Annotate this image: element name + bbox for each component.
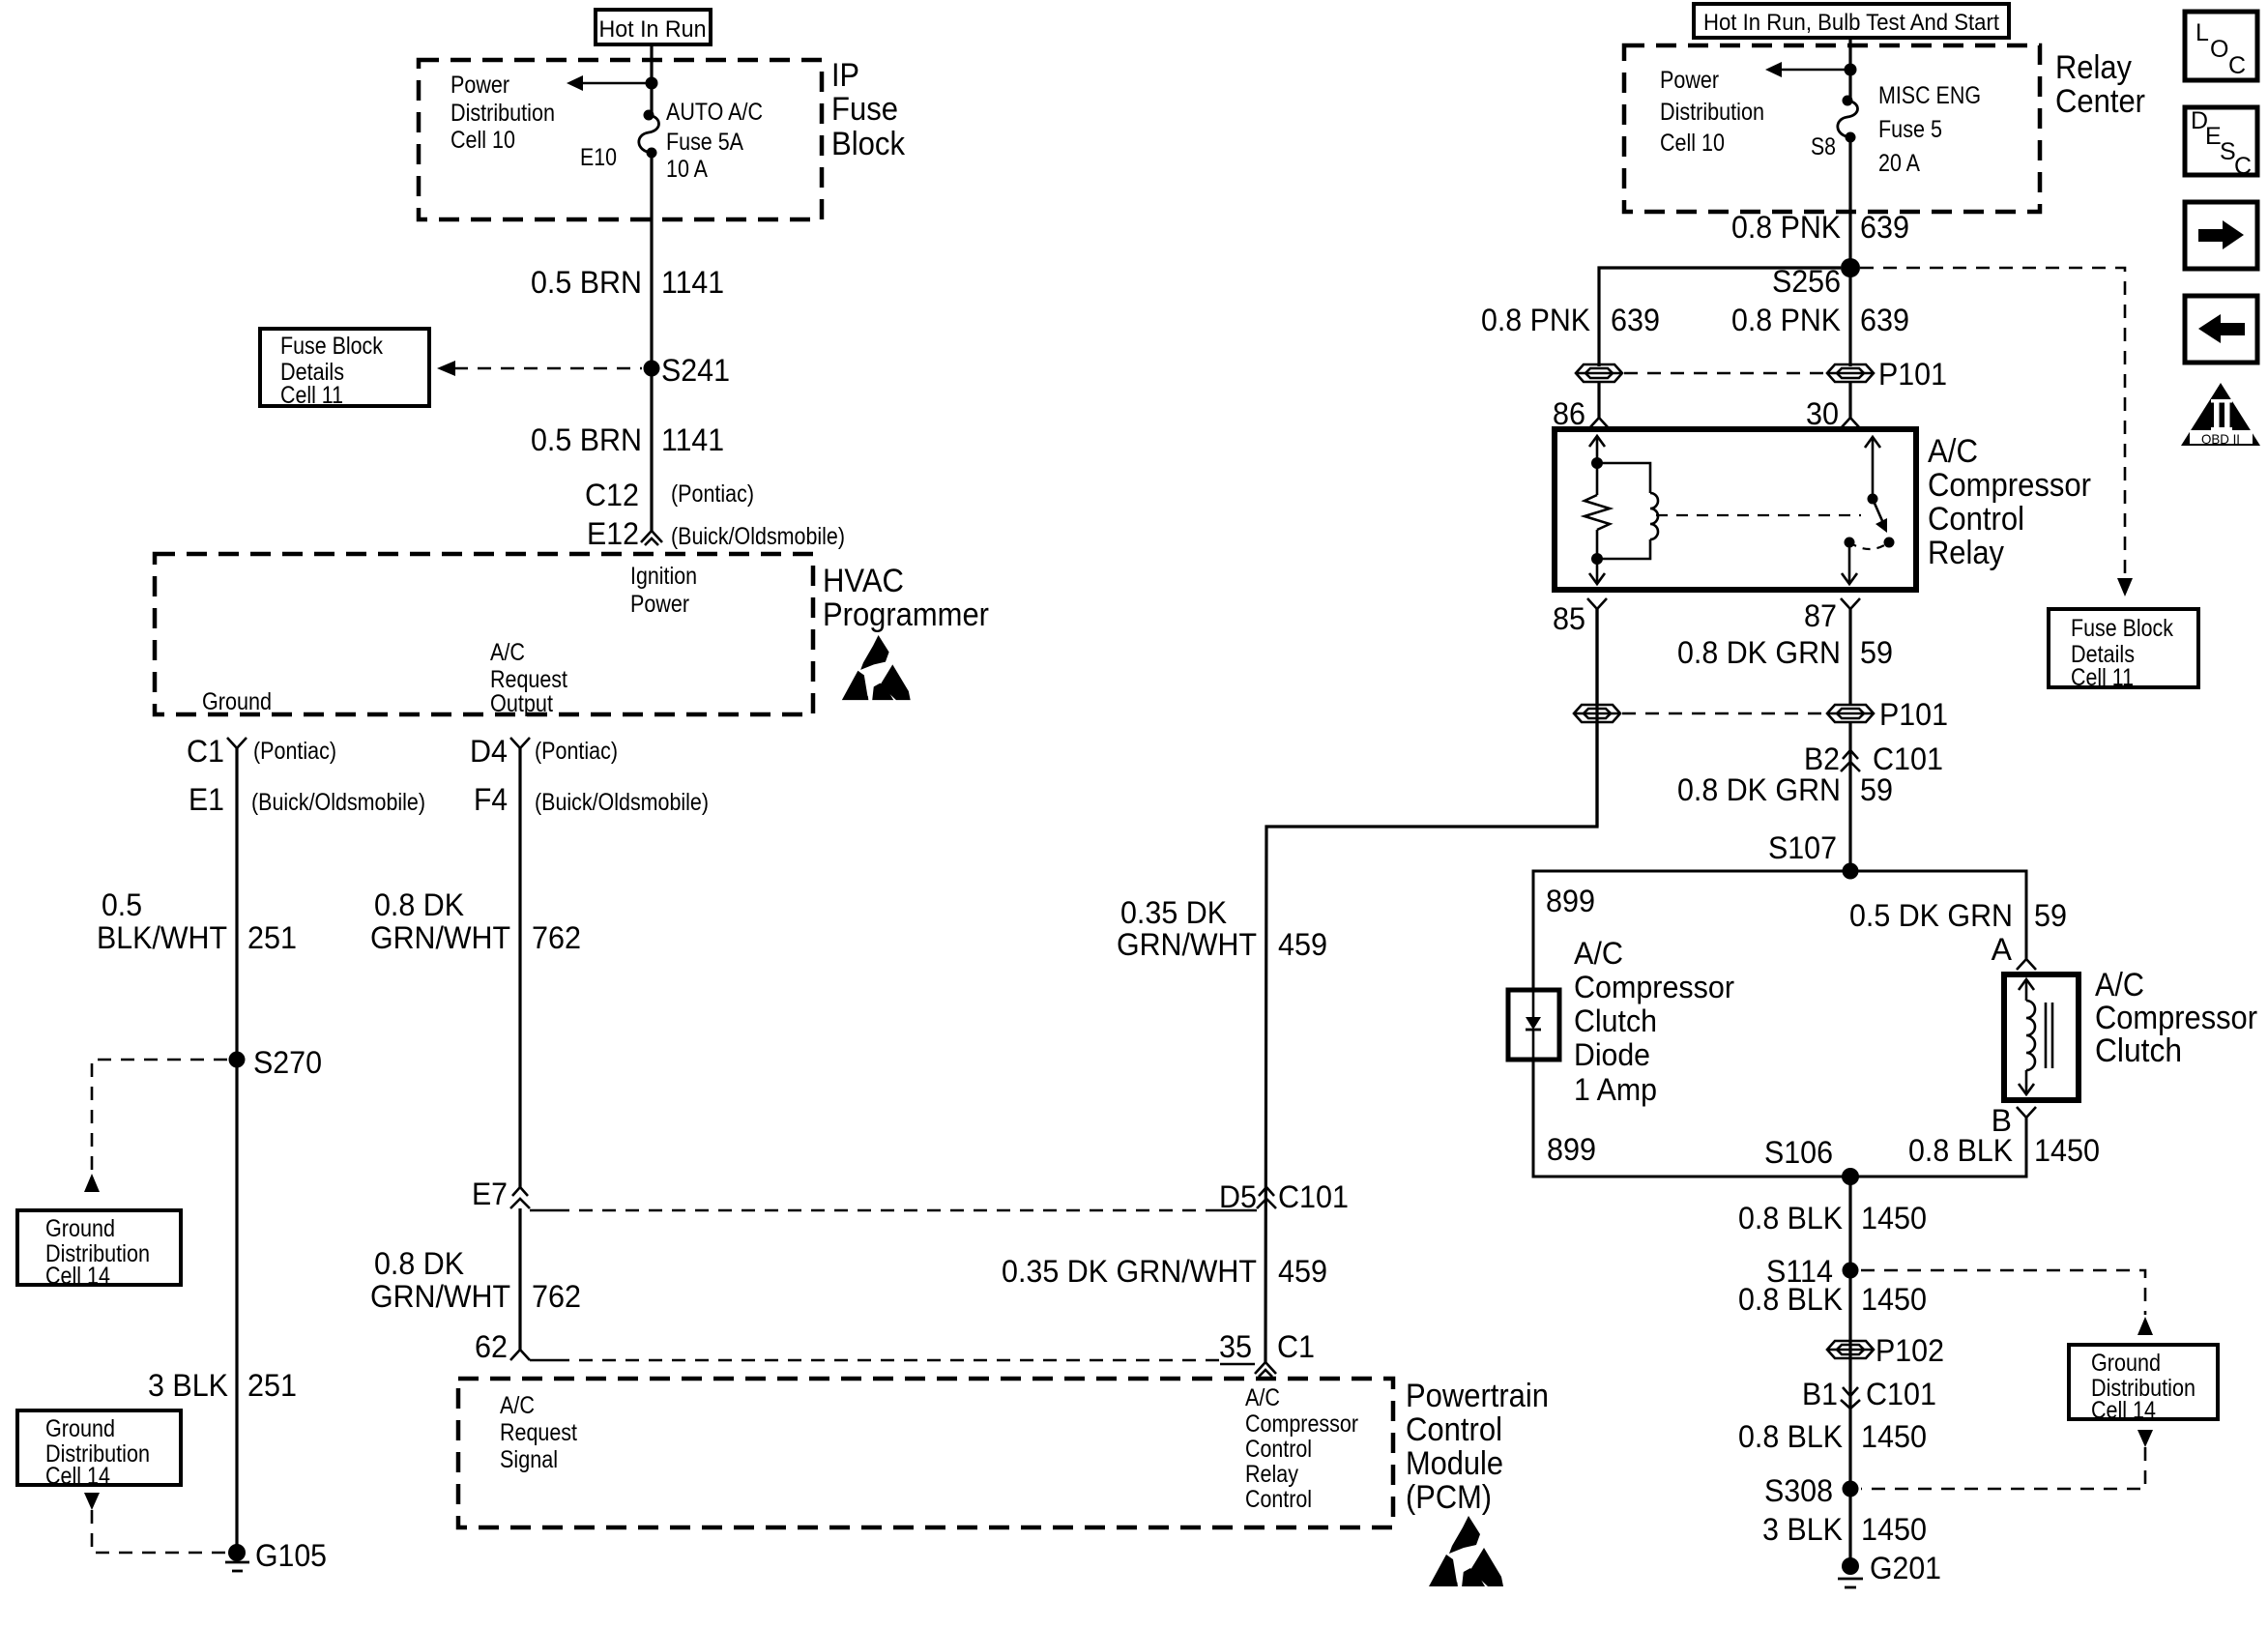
svg-text:Output: Output	[490, 690, 553, 717]
svg-text:C1: C1	[187, 734, 224, 769]
svg-text:E10: E10	[580, 144, 617, 171]
svg-text:Hot In Run: Hot In Run	[599, 16, 707, 43]
svg-text:OBD II: OBD II	[2201, 431, 2240, 447]
svg-text:20 A: 20 A	[1878, 150, 1920, 177]
svg-text:Request: Request	[490, 666, 567, 693]
svg-text:0.8 BLK: 0.8 BLK	[1908, 1133, 2013, 1168]
svg-text:Compressor: Compressor	[2095, 1000, 2257, 1036]
svg-text:0.8 DK GRN: 0.8 DK GRN	[1677, 772, 1841, 807]
svg-text:S107: S107	[1768, 830, 1837, 865]
svg-text:Compressor: Compressor	[1245, 1410, 1358, 1438]
svg-text:P102: P102	[1875, 1333, 1944, 1368]
svg-text:A/C: A/C	[1245, 1384, 1280, 1411]
svg-text:IP: IP	[831, 57, 859, 94]
svg-text:Cell 10: Cell 10	[1660, 130, 1725, 157]
svg-text:1141: 1141	[661, 422, 724, 457]
svg-text:0.35 DK GRN/WHT: 0.35 DK GRN/WHT	[1002, 1254, 1257, 1289]
svg-text:A/C: A/C	[1928, 433, 1978, 470]
svg-text:Fuse Block: Fuse Block	[280, 333, 383, 360]
svg-text:87: 87	[1804, 598, 1837, 633]
svg-text:C101: C101	[1278, 1179, 1349, 1214]
svg-text:(Buick/Oldsmobile): (Buick/Oldsmobile)	[535, 789, 709, 816]
svg-text:Control: Control	[1245, 1486, 1312, 1513]
svg-text:0.8 PNK: 0.8 PNK	[1481, 303, 1590, 337]
svg-text:(Buick/Oldsmobile): (Buick/Oldsmobile)	[251, 789, 425, 816]
svg-text:0.8 PNK: 0.8 PNK	[1731, 303, 1841, 337]
svg-text:(Pontiac): (Pontiac)	[535, 738, 618, 765]
svg-text:Request: Request	[500, 1419, 577, 1446]
svg-text:B2: B2	[1804, 741, 1840, 776]
svg-text:459: 459	[1278, 1254, 1327, 1289]
svg-text:1 Amp: 1 Amp	[1574, 1072, 1657, 1107]
svg-text:A/C: A/C	[1574, 936, 1623, 971]
svg-text:C101: C101	[1873, 741, 1943, 776]
svg-text:Cell 14: Cell 14	[45, 1263, 110, 1290]
svg-text:Control: Control	[1928, 501, 2024, 538]
svg-text:1450: 1450	[1861, 1282, 1927, 1317]
svg-text:899: 899	[1546, 884, 1595, 918]
svg-text:762: 762	[532, 1279, 581, 1314]
svg-text:Distribution: Distribution	[1660, 99, 1764, 126]
svg-text:Ignition: Ignition	[630, 563, 697, 590]
svg-text:0.8 BLK: 0.8 BLK	[1738, 1419, 1843, 1454]
svg-text:Cell 14: Cell 14	[45, 1463, 110, 1490]
svg-text:MISC ENG: MISC ENG	[1878, 82, 1981, 109]
svg-text:Fuse 5A: Fuse 5A	[666, 129, 743, 156]
svg-text:S8: S8	[1811, 133, 1836, 160]
svg-text:639: 639	[1611, 303, 1660, 337]
svg-text:Ground: Ground	[202, 688, 272, 715]
svg-text:59: 59	[2034, 898, 2067, 933]
svg-text:62: 62	[475, 1329, 508, 1364]
svg-text:Compressor: Compressor	[1574, 970, 1734, 1004]
svg-text:899: 899	[1547, 1132, 1596, 1167]
svg-text:Fuse Block: Fuse Block	[2071, 615, 2173, 642]
svg-text:C: C	[2234, 153, 2252, 180]
svg-text:D4: D4	[470, 734, 508, 769]
svg-text:0.5: 0.5	[102, 887, 142, 922]
svg-text:F4: F4	[474, 782, 508, 817]
svg-text:86: 86	[1553, 396, 1585, 431]
svg-text:C1: C1	[1277, 1329, 1315, 1364]
svg-text:C: C	[2228, 52, 2246, 79]
svg-text:Ground: Ground	[45, 1215, 115, 1242]
svg-text:A/C: A/C	[490, 639, 525, 666]
svg-text:Relay: Relay	[1928, 535, 2004, 571]
svg-text:0.8 DK: 0.8 DK	[374, 887, 464, 922]
svg-text:P101: P101	[1878, 357, 1947, 392]
svg-text:E12: E12	[587, 516, 639, 551]
svg-text:Distribution: Distribution	[451, 100, 555, 127]
svg-text:GRN/WHT: GRN/WHT	[370, 920, 510, 955]
svg-text:Center: Center	[2055, 83, 2145, 120]
svg-text:0.35 DK: 0.35 DK	[1120, 895, 1227, 930]
svg-text:Block: Block	[831, 126, 906, 162]
svg-text:1450: 1450	[1861, 1419, 1927, 1454]
svg-text:Clutch: Clutch	[1574, 1003, 1657, 1038]
svg-text:251: 251	[247, 1368, 297, 1403]
svg-text:251: 251	[247, 920, 297, 955]
svg-text:(Buick/Oldsmobile): (Buick/Oldsmobile)	[671, 523, 845, 550]
svg-text:1141: 1141	[661, 265, 724, 300]
svg-text:O: O	[2210, 36, 2228, 63]
svg-text:Relay: Relay	[2055, 49, 2132, 86]
svg-text:0.8 BLK: 0.8 BLK	[1738, 1282, 1843, 1317]
svg-text:S241: S241	[661, 353, 730, 388]
svg-text:Cell 11: Cell 11	[280, 382, 343, 409]
svg-text:59: 59	[1860, 772, 1893, 807]
svg-text:30: 30	[1806, 396, 1839, 431]
svg-text:E7: E7	[472, 1177, 508, 1211]
svg-text:L: L	[2195, 19, 2209, 46]
svg-text:G201: G201	[1870, 1551, 1941, 1585]
svg-text:3 BLK: 3 BLK	[1762, 1512, 1843, 1547]
svg-text:Ground: Ground	[2091, 1350, 2161, 1377]
svg-text:Programmer: Programmer	[823, 596, 989, 633]
svg-text:459: 459	[1278, 927, 1327, 962]
svg-text:Relay: Relay	[1245, 1461, 1298, 1488]
svg-text:Module: Module	[1406, 1445, 1503, 1482]
svg-text:Cell 10: Cell 10	[451, 127, 515, 154]
svg-text:HVAC: HVAC	[823, 563, 904, 599]
svg-text:10 A: 10 A	[666, 156, 708, 183]
svg-text:0.5 BRN: 0.5 BRN	[531, 265, 642, 300]
svg-text:B1: B1	[1802, 1377, 1838, 1411]
svg-text:(Pontiac): (Pontiac)	[671, 480, 754, 508]
svg-text:1450: 1450	[1861, 1201, 1927, 1236]
svg-text:59: 59	[1860, 635, 1893, 670]
svg-text:0.5 DK GRN: 0.5 DK GRN	[1849, 898, 2013, 933]
svg-text:(Pontiac): (Pontiac)	[253, 738, 336, 765]
svg-text:Power: Power	[630, 591, 689, 618]
svg-text:85: 85	[1553, 601, 1585, 636]
svg-text:Diode: Diode	[1574, 1037, 1650, 1072]
svg-text:G105: G105	[255, 1538, 327, 1573]
svg-text:C101: C101	[1866, 1377, 1936, 1411]
svg-text:D5: D5	[1219, 1179, 1257, 1214]
svg-text:639: 639	[1860, 303, 1909, 337]
svg-text:35: 35	[1219, 1329, 1252, 1364]
svg-text:GRN/WHT: GRN/WHT	[1117, 927, 1257, 962]
svg-text:Signal: Signal	[500, 1446, 558, 1473]
svg-text:0.8 PNK: 0.8 PNK	[1731, 210, 1841, 245]
svg-text:A: A	[1992, 932, 2013, 967]
svg-text:Compressor: Compressor	[1928, 467, 2091, 504]
svg-text:Hot In Run, Bulb Test And Star: Hot In Run, Bulb Test And Start	[1703, 10, 1999, 36]
svg-text:S106: S106	[1764, 1135, 1833, 1170]
svg-text:Control: Control	[1245, 1436, 1312, 1463]
svg-text:Fuse 5: Fuse 5	[1878, 116, 1942, 143]
svg-text:762: 762	[532, 920, 581, 955]
svg-text:Cell 11: Cell 11	[2071, 664, 2134, 691]
svg-text:Control: Control	[1406, 1411, 1502, 1448]
svg-text:Ground: Ground	[45, 1415, 115, 1442]
svg-text:639: 639	[1860, 210, 1909, 245]
svg-text:Cell 14: Cell 14	[2091, 1397, 2156, 1424]
svg-text:0.8 BLK: 0.8 BLK	[1738, 1201, 1843, 1236]
svg-text:Clutch: Clutch	[2095, 1032, 2182, 1069]
svg-text:1450: 1450	[1861, 1512, 1927, 1547]
svg-text:0.8 DK: 0.8 DK	[374, 1246, 464, 1281]
svg-text:AUTO A/C: AUTO A/C	[666, 99, 763, 126]
svg-text:Power: Power	[451, 72, 509, 99]
svg-text:3 BLK: 3 BLK	[148, 1368, 228, 1403]
svg-text:GRN/WHT: GRN/WHT	[370, 1279, 510, 1314]
svg-text:Power: Power	[1660, 67, 1719, 94]
svg-text:BLK/WHT: BLK/WHT	[97, 920, 227, 955]
svg-text:P101: P101	[1879, 697, 1948, 732]
svg-text:E1: E1	[189, 782, 224, 817]
svg-text:0.8 DK GRN: 0.8 DK GRN	[1677, 635, 1841, 670]
svg-text:A/C: A/C	[2095, 967, 2144, 1003]
svg-text:C12: C12	[585, 478, 639, 512]
svg-text:S270: S270	[253, 1045, 322, 1080]
svg-text:Fuse: Fuse	[831, 91, 898, 128]
svg-text:Powertrain: Powertrain	[1406, 1378, 1549, 1414]
svg-text:S308: S308	[1764, 1473, 1833, 1508]
svg-text:1450: 1450	[2034, 1133, 2100, 1168]
svg-text:0.5 BRN: 0.5 BRN	[531, 422, 642, 457]
svg-text:A/C: A/C	[500, 1392, 535, 1419]
svg-text:(PCM): (PCM)	[1406, 1479, 1492, 1516]
